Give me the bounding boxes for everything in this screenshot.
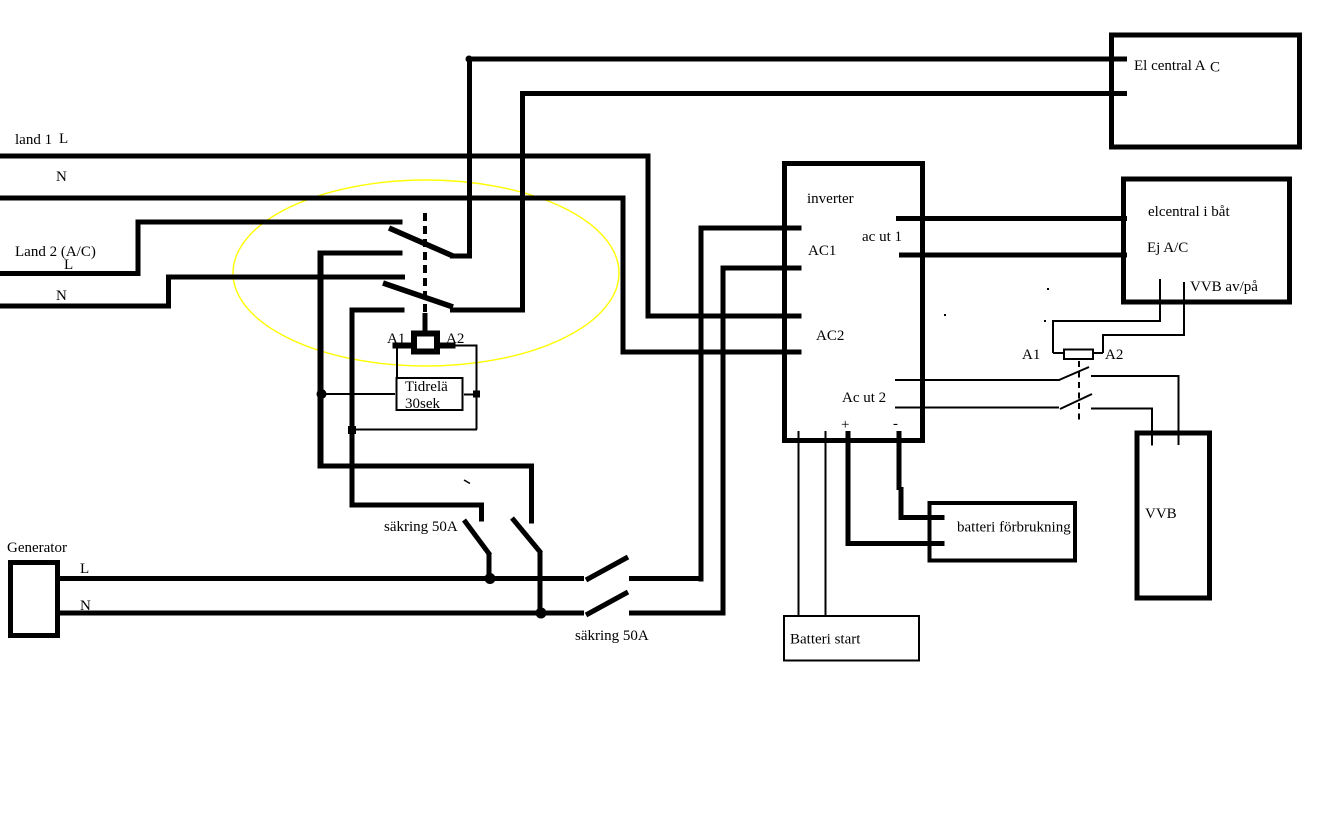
- svg-text:Generator: Generator: [7, 540, 67, 556]
- svg-text:N: N: [56, 169, 67, 185]
- svg-text:Ej A/C: Ej A/C: [1147, 240, 1188, 256]
- svg-text:L: L: [80, 561, 89, 577]
- relay K1 coil right stub A2: [440, 343, 456, 349]
- wire: Land2 N upper horizontal to switch2 contact: [166, 275, 405, 280]
- junction square on branch x352: [348, 426, 356, 434]
- svg-text:Tidrelä: Tidrelä: [405, 379, 448, 395]
- svg-text:VVB: VVB: [1145, 506, 1177, 522]
- wire: inverter ac ut 1 pin lower to elcentral: [899, 253, 1127, 258]
- wire: switch1 output y256: [450, 254, 472, 259]
- wire: Land2 L lower horizontal: [0, 271, 141, 276]
- wire: vertical x700 to AC1: [699, 226, 704, 582]
- svg-text:C: C: [1210, 60, 1220, 76]
- highlight ellipse (yellow) around transfer switch: [233, 180, 619, 366]
- timer Tidrela 30sek box: [397, 378, 463, 410]
- generator box: [11, 563, 58, 636]
- corner nub at x469 y59: [466, 56, 473, 63]
- wire: land1 L vertical drop at x648: [646, 154, 651, 319]
- wire: VVB switch right upper y376: [1091, 375, 1180, 377]
- El central A C box: [1112, 35, 1300, 147]
- wire: relay A2 lead vertical x1103: [1102, 334, 1104, 353]
- junction dot on generator N: [536, 608, 547, 619]
- wire: land1 L horizontal: [0, 154, 650, 159]
- wire: thin connector from A2 stub: [455, 345, 477, 347]
- wire: Land2 L vertical step: [136, 220, 141, 277]
- relay K2 coil right stub A2: [1094, 352, 1103, 354]
- wire: thin battery start lead 2: [825, 431, 827, 615]
- wire: generator N after fuse4: [629, 611, 726, 616]
- wire: branch2 vertical x352: [350, 308, 355, 508]
- wire: timer thin vertical left x397: [396, 343, 398, 381]
- svg-text:A1: A1: [387, 331, 405, 347]
- wire: horizontal y59 to El central pin1: [467, 57, 1127, 62]
- relay K1 coil left stub A1: [393, 343, 412, 349]
- svg-text:+: +: [841, 417, 849, 433]
- wire: relay A2 lead vertical x1184: [1183, 282, 1185, 336]
- svg-text:elcentral i båt: elcentral i båt: [1148, 204, 1230, 220]
- wire: AC2 pin upper into inverter y316: [646, 314, 802, 319]
- svg-text:batteri förbrukning: batteri förbrukning: [957, 520, 1071, 536]
- wire: vertical x522 to El central: [520, 91, 525, 313]
- svg-text:-: -: [893, 416, 898, 432]
- fuse F2 blade (sakring 50A): [464, 520, 490, 555]
- wire: Land2 N lower horizontal: [0, 304, 171, 309]
- svg-text:säkring 50A: säkring 50A: [575, 628, 649, 644]
- wire: branch2 horizontal y505: [350, 503, 484, 508]
- svg-text:Ac ut 2: Ac ut 2: [842, 390, 886, 406]
- wire: AC2 pin lower into inverter y352: [621, 350, 802, 355]
- svg-text:A2: A2: [446, 331, 464, 347]
- svg-text:N: N: [56, 288, 67, 304]
- svg-text:säkring 50A: säkring 50A: [384, 519, 458, 535]
- wire: battery minus horizontal y517: [899, 515, 945, 520]
- svg-text:VVB av/på: VVB av/på: [1190, 279, 1258, 295]
- wire: generator L after fuse3: [629, 576, 704, 581]
- wire: timer thin vertical right x476: [476, 345, 478, 430]
- wire: vertical x469 to El central: [467, 57, 472, 259]
- wire: branch horizontal y466: [319, 464, 534, 469]
- svg-text:N: N: [80, 598, 91, 614]
- stray tick mark: [464, 480, 470, 484]
- svg-text:inverter: inverter: [807, 191, 854, 207]
- wire: Ac ut 2 thin lower y407: [895, 407, 1059, 409]
- svg-text:L: L: [64, 257, 73, 273]
- Batteri start box: [784, 616, 919, 661]
- wire: generator N horizontal: [57, 611, 584, 616]
- svg-text:A2: A2: [1105, 347, 1123, 363]
- wire: fuse2 lower stub x489: [487, 553, 492, 581]
- wire: battery plus horizontal y543: [846, 541, 945, 546]
- wire: battery minus vertical upper: [897, 431, 902, 490]
- VVB switch blade upper: [1059, 367, 1089, 380]
- svg-text:ac ut 1: ac ut 1: [862, 229, 902, 245]
- relay K1 coil top stub: [423, 313, 428, 331]
- wire: land1 N horizontal: [0, 196, 626, 201]
- svg-text:AC2: AC2: [816, 328, 844, 344]
- relay K2 coil left stub A1: [1053, 352, 1063, 354]
- wire: relay A1 lead horizontal y321: [1052, 320, 1161, 322]
- wire: battery minus vertical lower jog: [899, 487, 904, 520]
- relay K2 coil body (right): [1064, 350, 1093, 360]
- stray dot 3: [1044, 320, 1046, 322]
- wire: fuse2 upper stub x481: [479, 503, 484, 522]
- wire: thin battery start lead 1: [798, 431, 800, 615]
- junction dot on branch x321: [317, 389, 327, 399]
- svg-text:AC1: AC1: [808, 243, 836, 259]
- relay K1 dashed actuator line: [423, 213, 427, 313]
- wire: AC1 pin lower y268: [721, 266, 802, 271]
- svg-text:El central A: El central A: [1134, 58, 1206, 74]
- switch S1 blade: [389, 228, 453, 256]
- svg-text:30sek: 30sek: [405, 396, 440, 412]
- elcentral i bat box: [1124, 179, 1290, 302]
- relay K2 dashed actuator line: [1078, 361, 1080, 421]
- stray dot 1: [944, 314, 946, 316]
- wire: fuse1 lower stub x540: [538, 551, 543, 615]
- wire: fuse1 upper stub x531: [529, 464, 534, 524]
- wire: AC1 pin upper y228: [699, 226, 802, 231]
- wire: relay A1 lead vertical x1160: [1159, 279, 1161, 322]
- VVB box: [1137, 433, 1210, 598]
- wire: timer thin horizontal y394 left: [322, 393, 395, 395]
- wire: switch2 output y310: [450, 308, 524, 313]
- wire: battery plus vertical: [846, 431, 851, 546]
- wire: Land2 N vertical step: [166, 275, 171, 309]
- wire: land1 N vertical drop at x623: [621, 196, 626, 355]
- switch S2 blade: [383, 283, 453, 307]
- wire: VVB lead vertical x1177: [1178, 375, 1180, 445]
- wire: horizontal y93 to El central pin2: [520, 91, 1127, 96]
- svg-text:land 1: land 1: [15, 132, 52, 148]
- svg-text:Batteri start: Batteri start: [790, 632, 861, 648]
- fuse F3 blade on generator L: [586, 557, 628, 580]
- VVB switch blade lower: [1060, 394, 1092, 409]
- svg-text:A1: A1: [1022, 347, 1040, 363]
- wire: inverter ac ut 1 pin upper to elcentral: [896, 216, 1127, 221]
- wire: relay A2 lead horizontal y335: [1102, 334, 1185, 336]
- batteri forbrukning box: [930, 503, 1076, 561]
- wire: Ac ut 2 thin upper y380: [895, 379, 1060, 381]
- wire: branch vertical x321: [318, 251, 324, 469]
- wire: switch2 lower contact from branch2: [350, 308, 405, 313]
- wire: Land2 L upper horizontal to switch1 contact: [136, 220, 403, 225]
- wire: VVB switch right lower y408: [1091, 408, 1153, 410]
- fuse F1 blade (sakring 50A): [512, 518, 541, 553]
- wire: relay A1 lead vertical x1053: [1052, 320, 1054, 353]
- wire: vertical x722 to AC1: [721, 266, 726, 616]
- fuse F4 blade on generator N: [586, 592, 628, 615]
- wire: switch1 lower contact from branch: [319, 251, 403, 256]
- svg-text:Land 2 (A/C): Land 2 (A/C): [15, 244, 96, 260]
- junction square right of Tidrela: [473, 391, 480, 398]
- wire: timer thin horizontal bottom y429: [352, 429, 477, 431]
- wire: VVB lead vertical x1152: [1151, 408, 1153, 446]
- inverter U1 box: [785, 164, 923, 441]
- svg-text:L: L: [59, 131, 68, 147]
- junction dot on generator L: [485, 573, 496, 584]
- wire: generator L horizontal: [57, 576, 584, 581]
- stray dot 2: [1047, 288, 1049, 290]
- wire: timer thin horizontal y394 right: [464, 394, 476, 396]
- relay K1 coil body: [411, 331, 440, 355]
